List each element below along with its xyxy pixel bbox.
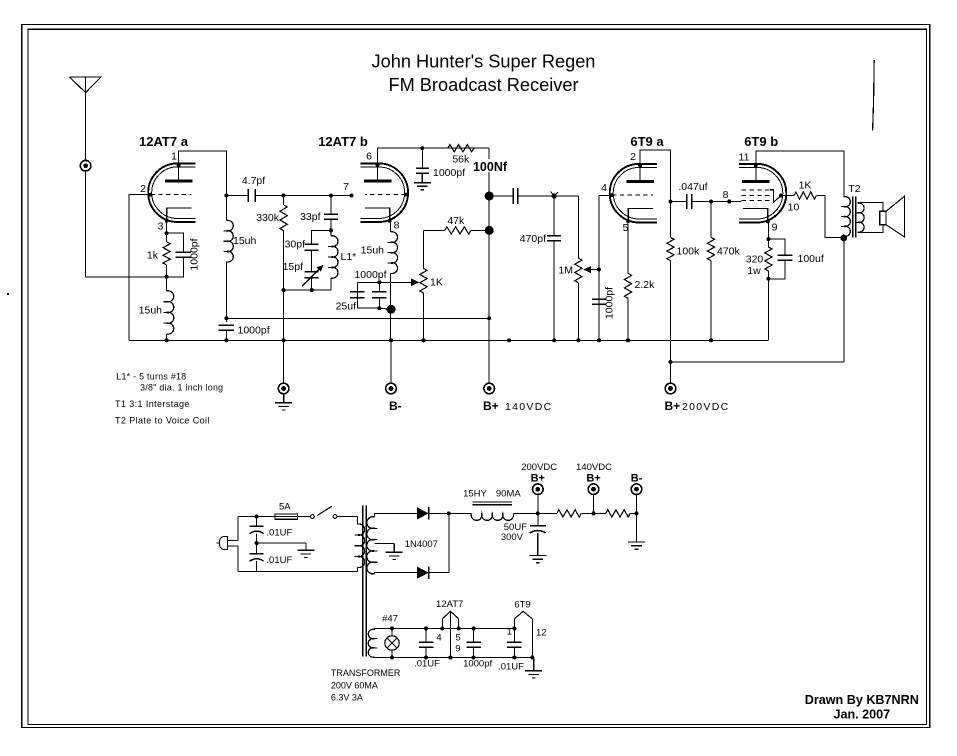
svg-text:#47: #47 <box>382 614 398 625</box>
svg-text:320: 320 <box>746 254 764 266</box>
svg-text:47k: 47k <box>447 215 465 227</box>
svg-text:33pf: 33pf <box>300 211 321 223</box>
svg-text:1M: 1M <box>558 265 573 277</box>
svg-text:11: 11 <box>739 152 750 164</box>
svg-text:T2 Plate to Voice Coil: T2 Plate to Voice Coil <box>115 415 210 425</box>
svg-text:30pf: 30pf <box>285 239 306 251</box>
svg-text:90MA: 90MA <box>496 489 521 500</box>
svg-text:6T9 a: 6T9 a <box>630 134 664 149</box>
svg-text:Jan. 2007: Jan. 2007 <box>833 708 890 722</box>
svg-text:.01UF: .01UF <box>414 658 440 669</box>
svg-text:56k: 56k <box>452 154 470 166</box>
svg-text:470pf: 470pf <box>520 233 546 245</box>
svg-text:1000pf: 1000pf <box>463 658 492 669</box>
svg-text:2.2k: 2.2k <box>635 279 656 291</box>
svg-text:1K: 1K <box>799 180 812 192</box>
svg-text:15HY: 15HY <box>463 489 487 500</box>
svg-text:1: 1 <box>171 151 177 163</box>
svg-text:12AT7 a: 12AT7 a <box>139 134 189 149</box>
svg-text:25uf: 25uf <box>336 301 357 313</box>
svg-text:15pf: 15pf <box>283 261 304 273</box>
svg-text:1000pf: 1000pf <box>433 167 465 179</box>
svg-text:200VDC: 200VDC <box>682 401 730 413</box>
svg-text:B+: B+ <box>531 473 545 485</box>
svg-text:100Nf: 100Nf <box>473 160 508 174</box>
svg-text:5: 5 <box>455 633 460 644</box>
svg-text:12AT7: 12AT7 <box>436 599 463 610</box>
svg-text:200V 60MA: 200V 60MA <box>331 681 378 691</box>
svg-text:4: 4 <box>436 633 441 644</box>
svg-text:T1 3:1 Interstage: T1 3:1 Interstage <box>115 399 190 409</box>
svg-text:B+: B+ <box>483 399 499 413</box>
svg-text:4.7pf: 4.7pf <box>242 175 265 187</box>
svg-text:12AT7 b: 12AT7 b <box>318 134 368 149</box>
svg-text:15uh: 15uh <box>233 235 257 247</box>
svg-text:100uf: 100uf <box>798 253 824 265</box>
svg-text:Drawn By KB7NRN: Drawn By KB7NRN <box>805 693 919 707</box>
svg-text:9: 9 <box>455 644 460 655</box>
svg-text:T2: T2 <box>848 183 860 195</box>
svg-text:.01UF: .01UF <box>266 555 292 566</box>
svg-text:100k: 100k <box>677 246 701 258</box>
svg-text:1k: 1k <box>147 249 159 261</box>
svg-text:John Hunter's Super Regen: John Hunter's Super Regen <box>372 52 596 72</box>
svg-text:15uh: 15uh <box>361 245 385 257</box>
svg-text:1000pf: 1000pf <box>354 269 386 281</box>
svg-text:10: 10 <box>788 202 800 214</box>
svg-text:1000pf: 1000pf <box>189 238 201 270</box>
svg-text:B-: B- <box>631 473 643 485</box>
svg-text:470k: 470k <box>717 246 741 258</box>
svg-text:3/8" dia. 1 inch long: 3/8" dia. 1 inch long <box>140 382 223 392</box>
svg-text:1: 1 <box>507 627 512 638</box>
svg-text:1N4007: 1N4007 <box>405 539 438 550</box>
svg-text:8: 8 <box>723 189 729 201</box>
svg-text:6.3V 3A: 6.3V 3A <box>331 693 363 703</box>
svg-text:15uh: 15uh <box>139 305 163 317</box>
svg-text:FM Broadcast Receiver: FM Broadcast Receiver <box>388 75 578 95</box>
svg-text:1w: 1w <box>747 265 761 277</box>
svg-text:140VDC: 140VDC <box>505 401 553 413</box>
svg-text:TRANSFORMER: TRANSFORMER <box>331 668 401 678</box>
svg-text:1000pf: 1000pf <box>238 325 270 337</box>
svg-text:12: 12 <box>536 628 547 639</box>
svg-text:4: 4 <box>601 182 607 194</box>
svg-text:2: 2 <box>630 151 636 163</box>
svg-text:1000pf: 1000pf <box>604 287 616 319</box>
svg-text:330k: 330k <box>256 212 280 224</box>
svg-text:5A: 5A <box>279 502 291 513</box>
svg-text:6T9 b: 6T9 b <box>744 134 778 149</box>
svg-text:.047uf: .047uf <box>678 181 707 193</box>
svg-text:200VDC: 200VDC <box>521 462 557 473</box>
svg-text:7: 7 <box>343 181 349 193</box>
svg-text:8: 8 <box>394 220 400 232</box>
svg-text:.01UF: .01UF <box>498 662 524 673</box>
svg-text:1K: 1K <box>430 277 443 289</box>
svg-text:6T9: 6T9 <box>514 600 530 611</box>
svg-text:B+: B+ <box>586 473 600 485</box>
svg-text:3: 3 <box>158 221 164 233</box>
svg-text:9: 9 <box>772 222 778 234</box>
svg-text:2: 2 <box>140 183 146 195</box>
svg-text:140VDC: 140VDC <box>576 462 612 473</box>
svg-text:6: 6 <box>366 151 372 163</box>
svg-text:.01UF: .01UF <box>266 527 292 538</box>
svg-text:B+: B+ <box>665 399 681 413</box>
svg-text:L1*: L1* <box>341 251 357 263</box>
svg-text:B-: B- <box>389 399 402 413</box>
svg-text:L1* - 5 turns #18: L1* - 5 turns #18 <box>116 372 186 382</box>
svg-text:300V: 300V <box>501 532 524 543</box>
